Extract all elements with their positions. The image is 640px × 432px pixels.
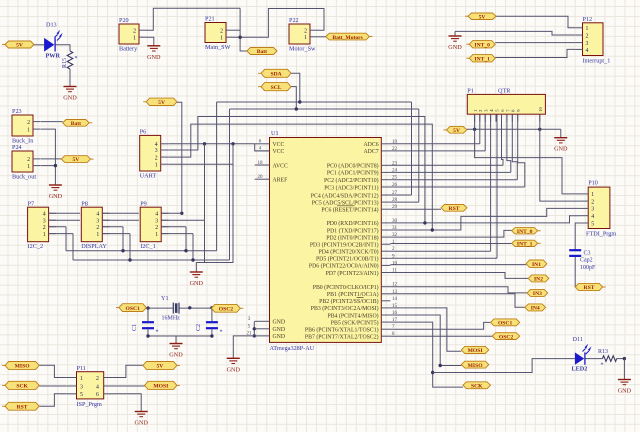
SCL row drops [72,234,74,260]
wire PB7 to OSC2 [390,335,492,337]
svg-text:30: 30 [392,218,398,224]
svg-text:I2C_2: I2C_2 [28,243,43,250]
svg-text:C2: C2 [196,324,202,331]
svg-text:QTR: QTR [498,88,511,95]
svg-text:1: 1 [586,26,589,32]
net label IN3 [527,289,548,297]
svg-text:PC5 (ADC5/SCL/PCINT13): PC5 (ADC5/SCL/PCINT13) [312,199,379,206]
wire GND to P12.2 [455,31,575,35]
ground [147,46,161,61]
net label Batt_Motors [326,33,373,41]
svg-text:3: 3 [155,218,158,224]
wire PB1 to IN4 [390,294,525,307]
connector P12 Interrupt_1 [575,16,610,65]
wire INT_1 to P12.4 [495,49,575,57]
svg-text:VCC: VCC [273,149,285,155]
svg-text:LED2: LED2 [572,366,588,373]
wire P23.2 to Batt [41,121,63,123]
svg-text:Interrupt_1: Interrupt_1 [583,58,611,65]
LED D13 [44,22,63,60]
wire PC6 to RST flag [390,208,441,210]
svg-text:1: 1 [591,192,594,198]
svg-text:Main_SW: Main_SW [205,44,231,51]
svg-text:26: 26 [392,182,398,188]
svg-text:2: 2 [27,120,30,126]
svg-text:OSC1: OSC1 [498,321,513,327]
svg-text:IN2: IN2 [534,277,543,283]
svg-text:*: * [156,330,159,336]
svg-text:Batt: Batt [71,121,81,127]
net label INT_1 [512,240,541,247]
I2C 5V row segments [49,212,80,214]
svg-text:INT_1: INT_1 [474,57,490,63]
svg-text:ADC7: ADC7 [363,149,378,155]
wire 5V down to VCC rail [177,102,182,213]
svg-text:2: 2 [155,225,158,231]
svg-text:MISO: MISO [15,364,31,370]
svg-text:GND: GND [273,327,286,333]
svg-text:4: 4 [96,212,99,218]
svg-text:RST: RST [584,285,595,291]
svg-text:MOSI: MOSI [153,384,168,390]
wire P11.6 to GND [114,394,141,412]
svg-text:GND: GND [227,366,241,373]
SCL bus down to I2C [229,109,231,260]
wire INT_0 to P12.3 [495,42,575,44]
svg-text:P24: P24 [12,144,22,151]
svg-text:PB3 (PCINT3/OC2A/MOSI): PB3 (PCINT3/OC2A/MOSI) [311,305,379,312]
svg-text:4: 4 [259,146,262,152]
branch VCC rail down B [232,144,234,227]
svg-text:GND: GND [273,320,286,326]
svg-text:IN1: IN1 [532,262,541,268]
I2C SCL row segments [49,233,73,235]
svg-text:2: 2 [304,28,307,34]
svg-text:31: 31 [392,225,398,231]
svg-text:SCL: SCL [271,85,282,91]
SCL rail [73,259,230,261]
connector P1 QTR [467,88,545,122]
svg-text:3: 3 [586,41,589,47]
svg-text:1: 1 [155,232,158,238]
wire PD0 long to P10.4 [390,216,579,223]
net label 5V [143,98,177,106]
svg-text:P11: P11 [77,365,86,372]
svg-text:5V: 5V [479,14,486,20]
wire SCL flag [291,87,296,109]
svg-text:1: 1 [304,35,307,41]
svg-text:P7: P7 [28,200,35,207]
svg-text:4: 4 [591,214,594,220]
svg-text:*: * [601,363,604,369]
LED D11 LED2 [572,336,592,373]
junction P24.1 [54,164,57,167]
svg-text:22: 22 [392,146,398,152]
junction SDA [298,100,301,103]
net label RST [2,402,39,410]
net label INT_1 [466,55,495,63]
connector P22 Motor_Sw [289,17,318,52]
wire VCC rail P6.4 to U1 [168,143,255,145]
svg-text:5V: 5V [16,43,23,49]
crystal Y1 16MHz [161,295,180,322]
svg-text:GND: GND [190,280,204,287]
svg-text:AVCC: AVCC [273,163,288,169]
svg-text:INT_1: INT_1 [517,242,533,248]
svg-text:3: 3 [155,148,158,154]
svg-text:PD4 (PCINT20/XCK/T0): PD4 (PCINT20/XCK/T0) [319,249,379,256]
svg-text:4: 4 [43,212,46,218]
net label SCL [258,83,291,91]
svg-text:5: 5 [80,392,83,398]
net label 5V [465,13,496,20]
svg-text:P8: P8 [81,200,88,207]
overline RESET [337,205,355,207]
net label SCK [2,381,39,389]
svg-text:OSC2: OSC2 [219,307,234,313]
svg-text:SDA: SDA [270,72,281,78]
net label INT_0 [512,228,541,235]
net label MOSI [461,346,489,354]
I2C GND drop [196,220,204,262]
net label 5V [2,41,34,49]
SDA row drops [65,227,67,251]
svg-text:PB4 (PCINT4/MISO): PB4 (PCINT4/MISO) [328,312,379,319]
svg-text:D13: D13 [46,22,57,29]
svg-text:32: 32 [392,232,398,238]
svg-text:DISPLAY: DISPLAY [81,243,107,250]
svg-text:VCC: VCC [273,142,285,148]
QTR pin8 to PC2 [512,114,517,180]
junction QTR pin10 [538,128,541,131]
net label MOSI [145,381,180,389]
U1 GND bracket [253,321,255,336]
svg-text:PC0 (ADC0/PCINT8): PC0 (ADC0/PCINT8) [327,163,379,170]
wire C3 to RST flag [574,257,576,288]
svg-text:28: 28 [392,197,398,203]
svg-text:RST: RST [17,404,28,410]
svg-text:2: 2 [220,28,223,34]
svg-text:4: 4 [155,212,158,218]
svg-text:Motor_Sw: Motor_Sw [289,46,316,53]
SDA drop to PC4 [411,102,413,195]
svg-text:OSC2: OSC2 [499,334,514,340]
svg-text:15: 15 [392,303,398,309]
svg-text:P9: P9 [140,200,147,207]
svg-text:P10: P10 [588,180,598,187]
net label IN1 [526,260,547,268]
svg-text:25: 25 [392,175,398,181]
crystal gnd rail [148,335,212,337]
svg-text:U1: U1 [271,130,279,137]
wire 5V to D13 [33,44,44,46]
wire PD7 to IN2 [390,273,528,279]
svg-text:4: 4 [586,48,589,54]
svg-text:GND: GND [618,388,632,395]
QTR pin7 to PC1 [507,114,511,172]
wire SDA flag [291,73,300,102]
svg-text:ISP_Prgm: ISP_Prgm [77,401,103,408]
svg-text:Battery: Battery [119,46,138,53]
svg-text:GND: GND [49,193,63,200]
overline SS [357,297,364,299]
svg-text:GND: GND [273,334,286,340]
svg-text:2: 2 [133,28,136,34]
connector P9 I2C_1 [140,200,168,250]
connector P8 DISPLAY [81,200,109,250]
wire OSC1 to Y1 [146,307,173,309]
svg-text:GND: GND [134,420,148,427]
wire P22.1 to Batt_Motors [318,36,326,38]
svg-text:P1: P1 [467,88,474,95]
svg-text:17: 17 [392,317,398,323]
svg-text:20: 20 [257,174,263,180]
svg-text:4: 4 [155,142,158,148]
wire P11.4 to MOSI [114,385,145,387]
svg-text:GND: GND [169,352,183,359]
svg-text:3: 3 [96,218,99,224]
wire U1 GND to ground [233,336,254,358]
C1 vertical [147,308,149,321]
svg-text:IN3: IN3 [533,291,542,297]
SDA bus down to I2C [216,102,218,251]
QTR pin5 to PD5 [496,114,498,258]
wire R15 to GND [69,69,71,87]
connector P11 ISP_Prgm [66,365,114,408]
svg-text:PB0 (PCINT0/CLKO/ICP1): PB0 (PCINT0/CLKO/ICP1) [313,284,379,291]
I2C SDA row segments [49,226,66,228]
connector P7 I2C_2 [28,200,56,250]
wire MISO to P11.1 [39,365,66,377]
connector P24 Buck_out [12,144,41,180]
ground [49,185,63,200]
SCL bus horizontal [230,108,419,110]
I2C GND row segments [49,219,80,221]
P6 GND drop [196,164,233,262]
svg-text:C1: C1 [132,324,138,331]
net label OSC2 [211,304,243,312]
net label MISO [461,361,489,369]
wire RST to P11.5 [39,394,66,406]
LED branch junction [431,371,434,374]
wire INT_0 to PD2 [390,230,511,237]
net label SCK [463,382,491,390]
svg-text:13: 13 [392,289,398,295]
ground [227,358,241,373]
net label IN4 [525,304,546,312]
svg-text:5V: 5V [158,100,165,106]
net label INT_0 [466,41,495,49]
wire 5V to P12.1 [496,16,575,28]
wire P20.1 to GND [147,37,154,46]
svg-text:INT_0: INT_0 [474,43,490,49]
wire P21.2 to riser [234,29,241,31]
svg-text:Batt_Motors: Batt_Motors [332,35,363,41]
svg-text:18: 18 [257,160,263,166]
svg-text:R13: R13 [598,349,608,355]
svg-text:ATmega328P-AU: ATmega328P-AU [270,345,315,352]
svg-text:PB1 (PCINT1/OC1A): PB1 (PCINT1/OC1A) [327,291,379,298]
ground [618,380,632,395]
wire P24.1 join [41,165,56,167]
svg-text:3: 3 [80,384,83,390]
wire R13 to GND corner [617,358,625,360]
svg-text:5: 5 [248,324,251,330]
svg-text:FTDI_Prgm: FTDI_Prgm [586,231,616,238]
svg-text:1: 1 [155,162,158,168]
junction 5V/VCC [203,142,206,145]
net label OSC1 [491,319,520,327]
ground [554,138,568,153]
C2 vertical [211,308,213,321]
wire P21 vertical to Batt [240,8,247,51]
QTR pin3 to ADC7 [484,114,486,151]
SDA rail [66,250,217,252]
svg-text:PB5 (SCK/PCINT5): PB5 (SCK/PCINT5) [331,319,379,326]
svg-text:PB7 (PCINT7/XTAL2/TOSC2): PB7 (PCINT7/XTAL2/TOSC2) [305,334,379,341]
wire PB0 to IN3 [390,287,527,293]
svg-text:I2C_1: I2C_1 [140,243,155,250]
net label 5V [61,156,93,164]
wire PB3 to MOSI [390,308,461,351]
net label 5V [143,362,180,370]
svg-text:C3: C3 [584,251,591,257]
wire P21.1 to P22 riser [233,9,324,38]
wire LED branch [433,359,575,373]
svg-text:2: 2 [96,225,99,231]
wire P20.2 up to P21 [147,8,241,30]
svg-text:2: 2 [586,33,589,39]
QTR pin4 to PD4 [490,114,492,251]
svg-text:D11: D11 [573,336,583,343]
svg-text:AREF: AREF [273,178,289,184]
QTR pin2 to ADC6 [479,114,481,144]
junction QTR pin1 [473,128,476,131]
svg-text:6: 6 [259,139,262,145]
svg-text:16: 16 [392,310,398,316]
svg-text:PC6 (RESET/PCINT14): PC6 (RESET/PCINT14) [321,207,378,214]
QTR pin6 to PC0 [502,114,504,165]
svg-text:10: 10 [392,260,398,266]
ground [134,412,148,427]
svg-text:GND: GND [554,146,568,153]
svg-text:P6: P6 [140,129,147,136]
net label OSC1 [116,304,146,312]
wire P24.2 to 5V [41,158,62,160]
svg-text:4: 4 [96,384,99,390]
svg-text:16MHz: 16MHz [162,316,181,322]
GND stub mesh [195,263,197,273]
svg-text:Y1: Y1 [161,295,169,302]
QTR pin2 horizontal [390,143,479,145]
wire PD1 to P10.3 [390,208,579,230]
svg-text:2: 2 [591,199,594,205]
svg-text:Cap2: Cap2 [580,258,593,264]
svg-text:5: 5 [591,221,594,227]
net label RST [575,283,606,291]
svg-text:OSC1: OSC1 [126,306,141,312]
wire INT_1 to PD3 [390,243,511,245]
capacitor C1 [132,322,159,335]
svg-text:ADC6: ADC6 [363,142,378,148]
connector P10 FTDI_Prgm [580,180,617,238]
svg-text:1: 1 [96,232,99,238]
resistor R13 [598,349,617,369]
svg-text:P21: P21 [205,16,215,23]
svg-text:GND: GND [448,44,462,51]
svg-text:SCK: SCK [16,384,28,390]
net label 5V [443,127,466,135]
svg-text:PB6 (PCINT6/XTAL1/TOSC1): PB6 (PCINT6/XTAL1/TOSC1) [305,327,379,334]
svg-text:3: 3 [248,316,251,322]
svg-text:R15: R15 [62,58,68,68]
svg-text:PC1 (ADC1/PCINT9): PC1 (ADC1/PCINT9) [327,170,379,177]
svg-text:24: 24 [392,167,398,173]
net label Batt [247,48,277,56]
svg-text:*: * [220,330,223,336]
wire P10.5 to C3 [575,223,579,250]
wire Y1 to OSC2 [179,307,212,309]
net label OSC2 [492,333,520,341]
net label Batt [63,120,93,128]
svg-text:1: 1 [220,35,223,41]
svg-text:P20: P20 [119,17,129,24]
svg-text:19: 19 [392,139,398,145]
wire 5V to QTR rail [467,128,561,130]
svg-text:PC2 (ADC2/PCINT10): PC2 (ADC2/PCINT10) [324,177,379,184]
wire PD6 to IN1 [390,264,526,266]
C1 lower vertical [147,330,149,337]
svg-text:GND: GND [63,95,77,102]
net label SDA [258,69,291,77]
net label IN2 [528,275,549,283]
wire PB5 to SCK [390,322,463,387]
svg-text:PD0 (RXD/PCINT16): PD0 (RXD/PCINT16) [327,220,379,227]
svg-text:14: 14 [392,296,398,302]
junction P21.1 [238,36,241,39]
svg-text:PD1 (TXD/PCINT17): PD1 (TXD/PCINT17) [327,227,379,234]
QTR pin1 5V to P10.1 [475,114,580,194]
svg-text:*: * [75,56,78,62]
connector P21 Main_SW [205,16,234,51]
net label RST [441,205,467,213]
SDA bus horizontal [217,101,412,103]
svg-text:PD7 (PCINT23/AIN1): PD7 (PCINT23/AIN1) [326,270,379,277]
svg-text:1: 1 [27,164,30,170]
svg-text:2: 2 [27,157,30,163]
SCL drop to PC5 [418,109,420,202]
svg-text:INT_0: INT_0 [517,229,533,235]
U1 VCC pin bracket [255,144,270,151]
SCL wire to PC5 [390,201,418,203]
QTR rail GND drop [560,129,562,137]
svg-text:1: 1 [80,376,83,382]
QTR pin9 to PC3 [518,114,525,187]
wire D11 to R13 [585,358,603,360]
svg-text:UART: UART [140,172,157,179]
svg-text:21: 21 [246,331,252,337]
svg-text:3: 3 [591,207,594,213]
svg-text:1: 1 [43,232,46,238]
svg-text:1: 1 [27,127,30,133]
svg-text:PD2 (INT0/PCINT18): PD2 (INT0/PCINT18) [326,234,378,241]
svg-text:P23: P23 [12,108,22,115]
connector P20 Battery [119,17,147,52]
svg-text:IN4: IN4 [531,306,540,312]
branch VCC rail down A [204,144,206,220]
svg-text:PWR: PWR [46,53,61,60]
svg-text:PC3 (ADC3/PCINT11): PC3 (ADC3/PCINT11) [324,184,378,191]
